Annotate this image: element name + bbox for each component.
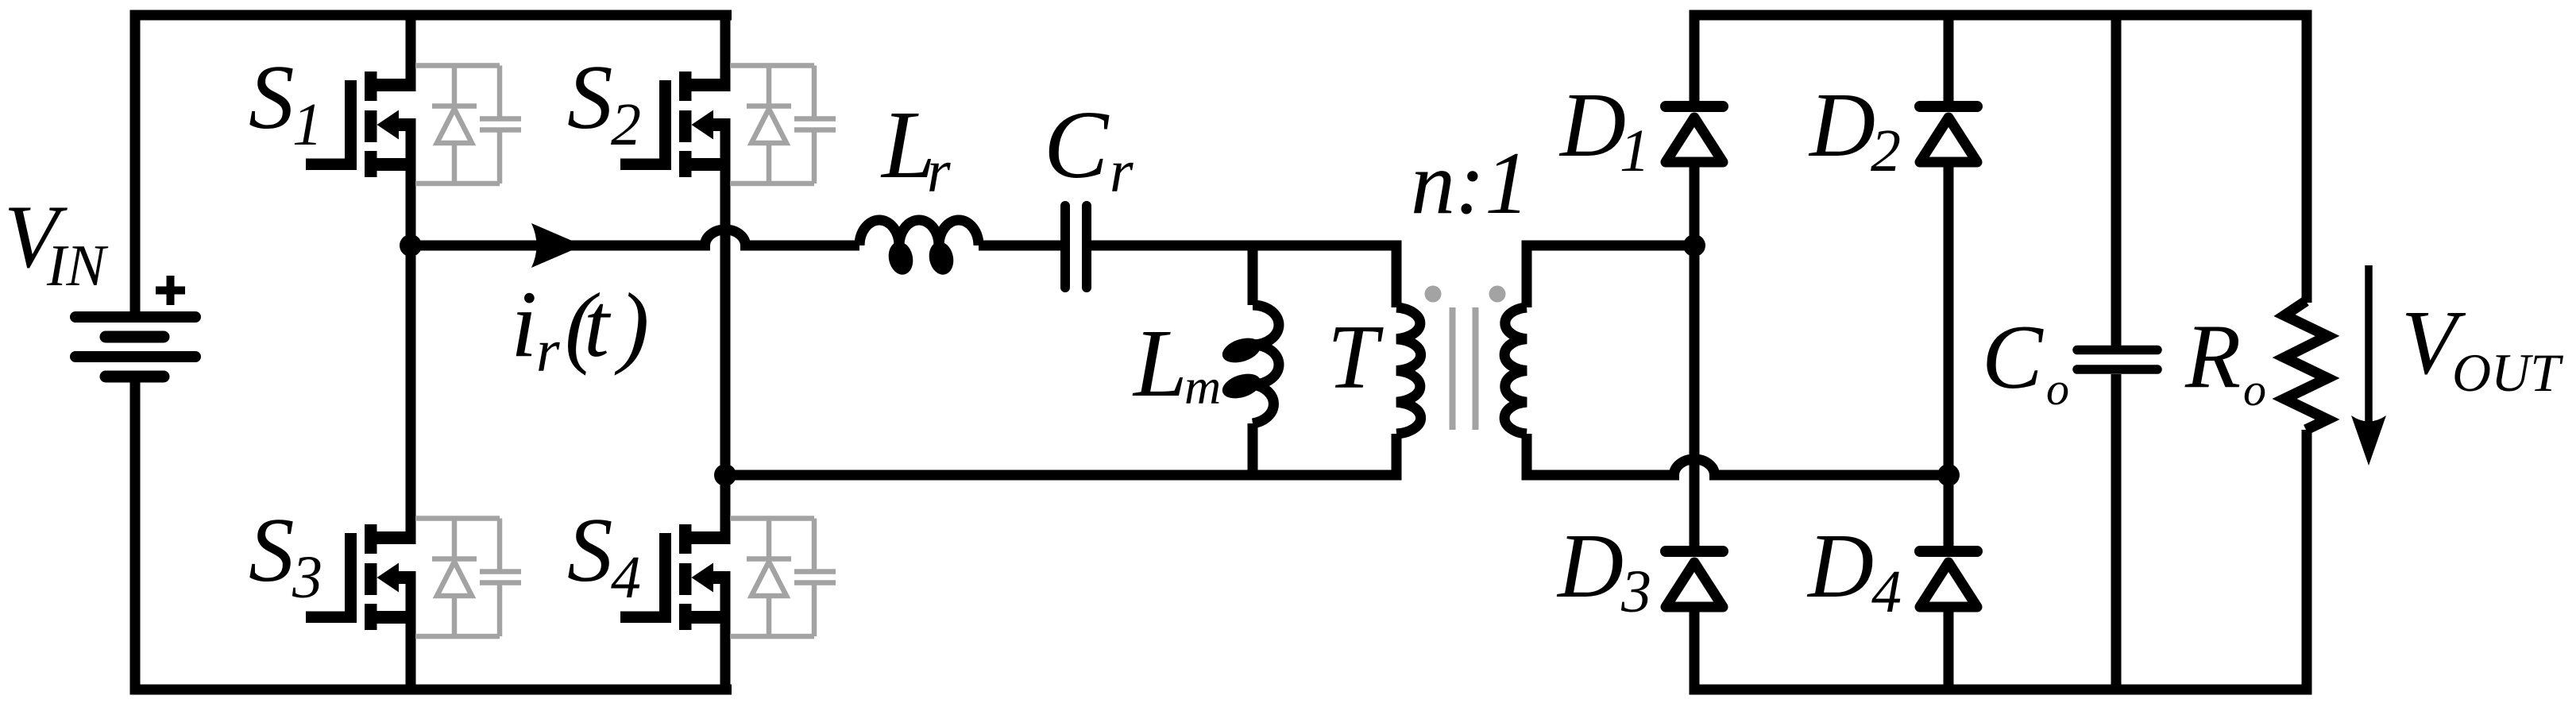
diode D2 — [1920, 101, 1977, 112]
svg-text:n:1: n:1 — [1411, 134, 1529, 233]
svg-text:R: R — [2184, 306, 2241, 407]
svg-text:S: S — [567, 500, 613, 601]
wire S2-S4 leg vertical — [720, 10, 731, 92]
svg-text:i: i — [511, 271, 537, 377]
diode D1 — [1666, 101, 1723, 112]
svg-text:): ) — [614, 275, 649, 376]
svg-text:r: r — [927, 138, 951, 205]
transformer core lines — [1453, 307, 1476, 430]
svg-text:L: L — [1132, 310, 1188, 417]
svg-text:4: 4 — [611, 544, 641, 611]
wire mid B from node to transformer — [725, 470, 1402, 481]
body diode + capacitor of S1 (gray) — [415, 66, 521, 184]
wire secondary bottom with hop over D1 leg — [1527, 459, 1948, 475]
svg-text:o: o — [2046, 363, 2069, 415]
svg-text:S: S — [249, 47, 295, 148]
wire left vertical upper — [130, 10, 141, 312]
svg-text:D: D — [1558, 75, 1626, 176]
svg-text:2: 2 — [611, 91, 641, 158]
wire bottom-left rail — [130, 685, 732, 695]
transistor S3 (MOSFET) — [306, 524, 416, 630]
wire between Lr and Cr — [979, 241, 1062, 251]
wire secondary top to D1 node — [1527, 241, 1694, 251]
wire S1-S3 leg vertical — [406, 10, 416, 92]
transistor S1 (MOSFET) — [306, 71, 416, 177]
arrow i_r on wire — [531, 223, 583, 268]
transistor S4 (MOSFET) — [620, 524, 731, 630]
node B dot — [714, 464, 736, 486]
svg-text:OUT: OUT — [2452, 342, 2563, 403]
capacitor C_o branch — [2111, 15, 2122, 690]
svg-text:2: 2 — [1871, 118, 1901, 184]
wire D2-D4 leg vertical — [1944, 10, 1954, 695]
transformer dot primary — [1425, 286, 1442, 303]
svg-text:3: 3 — [1620, 558, 1651, 625]
svg-text:T: T — [1327, 307, 1384, 408]
transformer T primary winding — [1392, 241, 1402, 481]
svg-text:D: D — [1556, 516, 1624, 616]
transformer dot secondary — [1489, 286, 1506, 303]
body diode + capacitor of S2 (gray) — [730, 66, 836, 184]
body diode + capacitor of S3 (gray) — [415, 519, 521, 637]
node dot D1 — [1683, 234, 1705, 257]
svg-text:r: r — [536, 318, 560, 384]
battery V_IN — [75, 317, 195, 377]
node dot D4 — [1937, 464, 1960, 486]
svg-text:1: 1 — [292, 91, 322, 158]
transistor S2 (MOSFET) — [620, 71, 731, 177]
wire mid A with hop over S2 leg — [411, 230, 859, 245]
svg-text:C: C — [1044, 91, 1110, 199]
svg-text:r: r — [1110, 138, 1134, 205]
resistor R_o branch — [2302, 15, 2312, 690]
diode D3 — [1666, 546, 1723, 557]
wire D1-D3 leg vertical — [1690, 10, 1700, 695]
arrow V_OUT — [2365, 265, 2373, 439]
wire top-right rail — [1690, 10, 2312, 21]
svg-text:S: S — [249, 500, 295, 601]
svg-text:3: 3 — [292, 544, 322, 611]
svg-text:t: t — [584, 275, 612, 376]
svg-text:C: C — [1982, 307, 2044, 408]
battery plus sign — [156, 276, 185, 305]
diode D4 — [1920, 546, 1977, 557]
wire left vertical lower — [130, 377, 141, 695]
transformer T secondary winding — [1522, 241, 1532, 481]
inductor L_m branch — [1248, 245, 1258, 475]
svg-text:S: S — [567, 47, 613, 148]
node A dot — [400, 234, 422, 257]
wire Cr to transformer — [1091, 241, 1402, 251]
svg-text:D: D — [1806, 516, 1874, 616]
svg-text:4: 4 — [1871, 558, 1902, 625]
svg-text:1: 1 — [1620, 118, 1650, 184]
svg-text:o: o — [2243, 364, 2266, 415]
svg-text:m: m — [1184, 358, 1221, 415]
capacitor C_r — [1065, 206, 1087, 288]
inductor L_r — [859, 220, 979, 245]
svg-text:D: D — [1808, 75, 1875, 176]
svg-text:IN: IN — [46, 234, 109, 299]
body diode + capacitor of S4 (gray) — [730, 519, 836, 637]
wire bottom-right rail — [1690, 685, 2312, 695]
wire top-left rail — [130, 10, 732, 21]
